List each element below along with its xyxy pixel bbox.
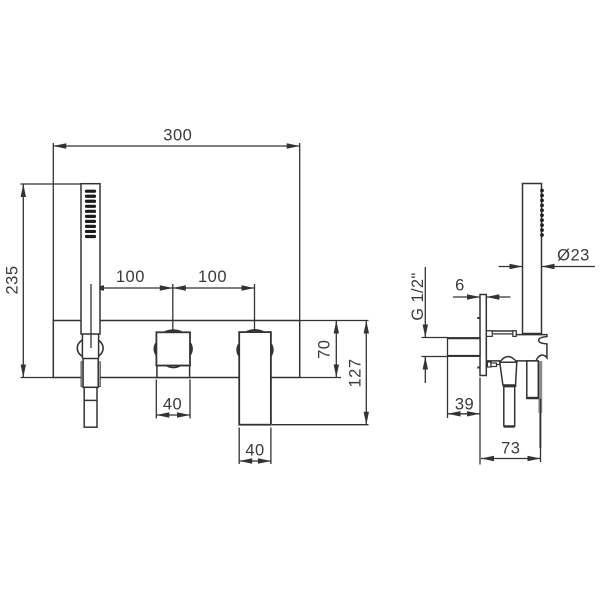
- svg-text:70: 70: [316, 340, 334, 359]
- svg-text:100: 100: [116, 268, 145, 286]
- svg-text:100: 100: [198, 268, 227, 286]
- svg-text:6: 6: [455, 277, 465, 295]
- svg-text:127: 127: [347, 358, 365, 387]
- svg-text:Ø23: Ø23: [557, 247, 590, 265]
- svg-text:235: 235: [3, 265, 21, 294]
- svg-text:300: 300: [163, 127, 192, 145]
- svg-text:40: 40: [163, 395, 182, 413]
- svg-text:G 1/2": G 1/2": [409, 272, 427, 320]
- svg-text:73: 73: [501, 439, 520, 457]
- svg-text:39: 39: [455, 396, 474, 414]
- svg-text:40: 40: [245, 442, 264, 460]
